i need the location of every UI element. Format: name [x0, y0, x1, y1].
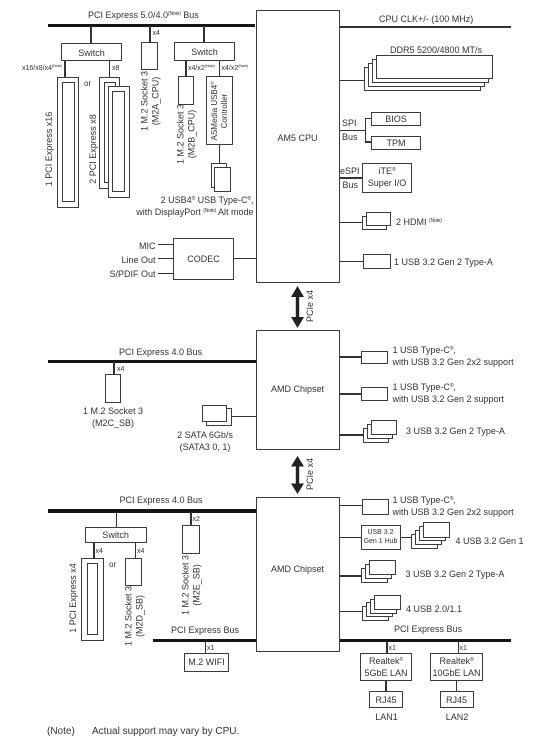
CODEC chip [173, 238, 234, 280]
wire chipset2 to USB 2.0 stack [340, 611, 363, 613]
wire hub to USB stack [401, 537, 412, 539]
label x1 (LAN1) [389, 645, 396, 653]
wire bus1 to Switch1 [90, 26, 92, 43]
HDMI port stack (front) [366, 212, 391, 226]
label 1 M.2 Socket 3 (M2B_CPU) rotated [176, 104, 197, 164]
Realtek 5GbE LAN chip [360, 653, 413, 681]
slot: 1 PCI Express x16 [57, 77, 79, 208]
wire ASMedia to USB4 ports [219, 145, 221, 163]
wire bus2 to M2C [113, 362, 115, 374]
SATA port stack (back) [206, 408, 232, 426]
wire SW1 to PCIe x8 slot [109, 61, 111, 77]
label S/PDIF Out [109, 269, 155, 279]
wire CPU to DDR5 [340, 80, 365, 82]
label 2 SATA 6Gb/s [177, 430, 233, 440]
USB 3.2 Gen 1 stack x4 [411, 534, 438, 549]
label x8 [112, 65, 119, 73]
label 4 USB 2.0/1.1 [406, 604, 462, 614]
RJ45 port LAN1 [369, 691, 403, 708]
label PCIe x4 (rotated, 2) [305, 458, 316, 490]
wire SW3 to M2D [135, 543, 137, 559]
wire bus4 to WIFI [205, 642, 207, 653]
label eSPI Bus [340, 166, 360, 176]
HDMI port stack (back) [362, 216, 387, 230]
bus: PCI Express (left) [153, 639, 256, 642]
switch SW2 [174, 42, 235, 61]
chipset U4: AMD Chipset [256, 497, 340, 652]
label LAN1 [375, 712, 398, 722]
note text [47, 727, 75, 737]
M.2 socket M2E box [182, 525, 200, 554]
BIOS chip [371, 112, 421, 126]
slot: 2 PCI Express x8 (front) [108, 86, 130, 198]
RJ45 port LAN2 [440, 691, 474, 708]
slot: 1 PCI Express x4 [81, 558, 104, 642]
arrow PCIe x4 (chipset1 to chipset2) [289, 456, 306, 494]
label MIC [139, 241, 156, 251]
bus: PCI Express (right) [340, 639, 512, 642]
wire bus3 to M2E [190, 512, 192, 525]
Realtek 10GbE LAN chip [430, 653, 483, 681]
label x4 (M2A) [153, 30, 160, 38]
label x4/x2 left [188, 65, 215, 73]
label PCIe x4 (rotated) [305, 290, 316, 322]
bus: PCI Express 4.0 (1) [48, 360, 256, 363]
M.2 socket M2C box [105, 374, 121, 403]
label x16/x8/x4 [22, 65, 62, 73]
USB 3.2 Gen 1 Hub [361, 525, 401, 550]
wire Realtek2 to RJ45 [456, 681, 458, 692]
label 1 M.2 Socket 3 (M2E_SB) rotated [180, 555, 201, 615]
bus: PCI Express 4.0 (2) [48, 509, 256, 512]
USB Type-C port (2x2) [361, 351, 388, 365]
wire CPU CLK line [340, 26, 512, 28]
wire CODEC to CPU [234, 258, 256, 260]
label 1 M.2 Socket 3 (M2C_SB) [83, 406, 143, 416]
USB4 Type-C port stack (front) [214, 167, 231, 192]
USB 3.2 Gen2 Type-A stack x3 [363, 428, 389, 444]
label 1 USB Type-C 2x2 [393, 345, 456, 355]
TPM chip [371, 136, 421, 150]
label x4 (M2C) [117, 366, 124, 374]
switch SW1 [61, 43, 122, 61]
M.2 socket M2A box [141, 42, 158, 70]
label: PCI Express 5.0/4.0 Bus [88, 10, 199, 20]
wire chipset1 to USB-C gen2 [340, 393, 362, 395]
switch SW3 [85, 527, 147, 543]
iTE Super I/O chip [362, 163, 412, 193]
wire bus5 to Realtek 5GbE [386, 642, 388, 653]
DDR5 DIMM stack (4 slots) [364, 67, 481, 91]
wire chipset1 to USB stack [340, 434, 364, 436]
USB Type-C port (Gen 2) [361, 387, 388, 401]
wire SW3 to PCIe x4 slot [93, 543, 95, 559]
wire chipset2 to USB gen2 stack [340, 575, 362, 577]
M.2 socket M2D box [125, 558, 142, 586]
wire chipset2 to USB-C 2x2 [340, 505, 363, 507]
label or (2) [109, 561, 116, 569]
wire S/PDIF to CODEC [158, 273, 174, 275]
label CPU CLK [379, 14, 473, 24]
wire bus3 to Switch3 [116, 512, 118, 527]
ASMedia USB4 controller U1 [206, 76, 233, 145]
USB 3.2 Gen2 Type-A stack x3 (chipset2) [361, 568, 388, 583]
M.2 socket M2B box [178, 76, 194, 105]
label 1 M.2 Socket 3 (M2D_SB) rotated [123, 586, 144, 646]
wire bus5 to Realtek 10GbE [458, 642, 460, 653]
wire to BIOS [365, 118, 372, 120]
chipset U3: AMD Chipset [256, 330, 340, 450]
USB 3.2 Type-A port [363, 254, 391, 269]
wire Realtek1 to RJ45 [385, 681, 387, 692]
label PCI Express 4.0 Bus (2) [120, 495, 203, 505]
label PCI Express 4.0 Bus (1) [119, 347, 202, 357]
label Line Out [121, 255, 155, 265]
label 1 USB Type-C 2x2 (2) [393, 495, 456, 505]
wire SW1 to PCIe x16 slot [64, 61, 66, 77]
wire CPU to HDMI [340, 222, 363, 224]
label x1 (LAN2) [460, 645, 467, 653]
slot: 2 PCI Express x8 (back) [99, 77, 120, 189]
label 1 USB 3.2 Gen 2 Type-A [394, 257, 493, 267]
label 3 USB 3.2 Gen 2 Type-A (2) [406, 569, 505, 579]
wire CPU to SPI bracket [340, 130, 366, 132]
CPU U2: AM5 CPU [256, 10, 340, 283]
wire CPU to USB-A [340, 261, 364, 263]
label x2 (M2E) [193, 516, 200, 524]
wire Line Out to CODEC [158, 258, 174, 260]
wire to TPM [365, 141, 372, 143]
wire chipset2 to USB hub [340, 537, 362, 539]
label PCI Express Bus (left) [171, 625, 239, 635]
arrow PCIe x4 (CPU to chipset 1) [289, 286, 306, 328]
label 3 USB 3.2 Gen 2 Type-A [406, 426, 505, 436]
label x4/x2 right [222, 65, 249, 73]
label 2 USB4 USB Type-C [161, 195, 254, 205]
wire bus1 to M2A [149, 26, 151, 42]
wire bus1 to Switch2 [203, 26, 205, 42]
label 2 HDMI [396, 217, 442, 227]
label x4 (right) [137, 548, 144, 556]
bus: PCI Express 5.0/4.0 [48, 24, 255, 27]
wire SW2 to M2B [185, 61, 187, 76]
wire MIC to CODEC [158, 244, 174, 246]
M.2 WIFI module [184, 653, 229, 672]
label 2 PCI Express x8 (rotated) [88, 114, 99, 184]
label DDR5 [390, 45, 482, 55]
USB 2.0/1.1 stack x4 [362, 606, 389, 621]
label LAN2 [446, 712, 469, 722]
label PCI Express Bus (right) [394, 624, 462, 634]
label 1 USB Type-C gen2 [393, 382, 456, 392]
wire SW2 to ASMedia [219, 61, 221, 76]
wire CPU to iTE [340, 177, 363, 179]
label 1 M.2 Socket 3 (M2A_CPU) rotated [140, 71, 161, 131]
wire SATA to chipset1 [232, 416, 256, 418]
USB4 Type-C port stack (back) [211, 163, 228, 189]
label 1 PCI Express x16 (rotated) [44, 112, 55, 187]
USB Type-C port (2x2, chipset2) [362, 499, 389, 515]
label SPI Bus [342, 118, 357, 128]
label or [84, 80, 91, 88]
label 1 PCI Express x4 (rotated) [68, 563, 79, 633]
label x4 (left) [96, 548, 103, 556]
wire SPI bracket vertical [365, 118, 367, 143]
wire chipset1 to USB-C 2x2 [340, 356, 362, 358]
SATA port stack (front) [202, 405, 227, 422]
label x1 (WIFI) [207, 645, 214, 653]
label 4 USB 3.2 Gen 1 [456, 536, 524, 546]
